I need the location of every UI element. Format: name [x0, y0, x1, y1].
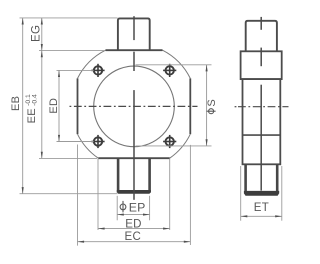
- dim ED horizontal: [98, 228, 170, 230]
- label EE with tolerance: [25, 94, 39, 123]
- ext bolt top: [57, 69, 94, 71]
- ext flange top: [39, 50, 105, 52]
- ET arrows: [241, 215, 248, 217]
- svg-text:ET: ET: [254, 202, 269, 214]
- bottom block bottom band: [117, 190, 151, 194]
- large bore circle: [94, 66, 175, 147]
- ext bolt bottom: [57, 141, 94, 143]
- ext top block top: [20, 17, 118, 19]
- ED horizontal arrows: [98, 228, 105, 230]
- phi EP arrows: [117, 214, 124, 216]
- side second block: [241, 51, 282, 79]
- bolt hole top-left: [91, 64, 104, 77]
- front vertical centerline: [133, 16, 135, 200]
- ext ET right: [281, 166, 283, 221]
- svg-text:EG: EG: [31, 25, 43, 42]
- front horizontal centerline: [70, 105, 198, 107]
- dim phi S: [206, 65, 208, 146]
- side top block: [246, 21, 277, 52]
- ext ET left: [240, 166, 242, 221]
- svg-text:ED: ED: [48, 98, 60, 114]
- phi S arrows: [206, 65, 208, 72]
- ext EP right: [149, 196, 151, 221]
- ext bottom block bottom: [20, 193, 118, 195]
- dim EC: [78, 241, 191, 243]
- side vertical centerline: [260, 17, 262, 191]
- dim ET: [241, 215, 282, 217]
- flange corner arcs (trimmed circle R63): [78, 50, 191, 158]
- ext EP left: [116, 196, 118, 221]
- ext EC right: [189, 145, 191, 245]
- svg-text:EC: EC: [125, 231, 142, 243]
- svg-text:EB: EB: [10, 96, 22, 111]
- EE arrows: [41, 51, 43, 58]
- EC arrows: [78, 241, 85, 243]
- ext circle top: [136, 64, 212, 66]
- side horizontal centerline: [238, 106, 289, 108]
- side main body: [243, 79, 281, 164]
- bottom block sides: [117, 158, 120, 192]
- flange body straight edges: [78, 50, 191, 158]
- ED vertical arrows: [58, 70, 60, 77]
- svg-text:S: S: [206, 99, 218, 107]
- side bottom band: [244, 191, 279, 196]
- top block: [118, 18, 150, 50]
- dim EG + EE: [41, 18, 43, 159]
- svg-text:EP: EP: [129, 200, 146, 214]
- EB arrows: [22, 18, 24, 25]
- ext ED left: [97, 159, 99, 230]
- ext EC left: [77, 145, 79, 246]
- dim EB: [22, 18, 24, 194]
- EG arrows: [41, 18, 43, 25]
- label phi S: [207, 109, 216, 114]
- bolt hole bottom-left: [91, 135, 104, 148]
- bolt hole bottom-right: [163, 135, 176, 148]
- ext ED right: [169, 159, 171, 230]
- dim phi EP: [117, 214, 149, 216]
- dim ED vertical: [58, 70, 60, 141]
- ext circle bottom: [136, 145, 212, 147]
- side bottom block: [244, 164, 247, 194]
- svg-text:-0.4: -0.4: [32, 94, 39, 106]
- label phi EP: [120, 201, 126, 213]
- svg-text:ED: ED: [125, 219, 142, 231]
- side body divider: [243, 134, 281, 136]
- svg-text:EE: EE: [26, 108, 38, 123]
- bolt hole top-right: [163, 64, 176, 77]
- ext flange bottom left: [39, 157, 97, 159]
